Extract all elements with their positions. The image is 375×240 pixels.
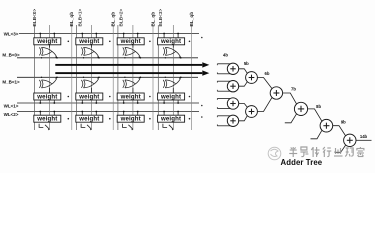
svg-text:WL<1>: WL<1>: [4, 103, 19, 108]
wire row3 col2 partial gate hook: [81, 124, 92, 131]
node array right-edge junction: [201, 37, 203, 39]
svg-text:BLB<3>: BLB<3>: [158, 9, 163, 27]
watermark glyph 2: [300, 147, 308, 157]
svg-text:6b: 6b: [265, 71, 270, 76]
node 14b width label: [360, 134, 368, 139]
wire row2 col1 tick to WL<1>: [53, 100, 55, 103]
wire row1 col3 tick to WL<3>: [137, 34, 139, 38]
node row2 col3 gate output junction: [140, 77, 142, 79]
op-amp-like adder U2 (+): [227, 81, 238, 92]
node row2 col3 M_B junction: [124, 77, 125, 78]
svg-text:weight: weight: [120, 38, 141, 45]
node bitline label BL_qb #1: [69, 12, 74, 27]
node bitline label BLB<0> #0: [32, 9, 37, 27]
wire WL<2> row line: [17, 111, 199, 113]
wire row1 col4 tick to WL<3>: [163, 34, 165, 38]
svg-text:weight: weight: [78, 116, 99, 123]
node row2 col2 gate output junction: [98, 77, 100, 79]
wire adder A2 input stub top: [217, 80, 230, 82]
weight cell row1 col1 box: [34, 38, 61, 45]
wire row2 col3 tick to WL<1>: [123, 100, 125, 103]
wire bitline BL_qb<1> vertical: [112, 25, 114, 130]
watermark logo circle: [268, 147, 281, 160]
wire bitline BL_qb<2> vertical: [152, 25, 154, 130]
weight cell row3 col1 box: [34, 115, 61, 122]
svg-text:14b: 14b: [360, 134, 368, 139]
node 9b width label: [341, 119, 346, 124]
xor gate row2 col4: [163, 77, 181, 88]
wire row3 col2 tick to WL<2>: [95, 112, 97, 116]
wire row2 col3 tick to WL<1>: [137, 100, 139, 103]
wire row3 col4 tick to WL<2>: [177, 112, 179, 116]
node row2 col4 gate output junction: [180, 77, 182, 79]
xor gate row1 col1: [39, 47, 57, 58]
svg-text:weight: weight: [78, 93, 99, 100]
wire row1 col2 weight-to-gate stub: [91, 45, 93, 48]
node 6b width label: [265, 71, 270, 76]
weight cell row1 col3 box: [117, 38, 144, 45]
node WL<3> label: [4, 31, 19, 36]
node row2 col1 M_B junction: [41, 77, 42, 78]
node array right-edge junction: [201, 105, 203, 107]
xor gate row2 col1: [39, 77, 57, 88]
wire row1 col4 tick to WL<3>: [177, 34, 179, 38]
node bitline label BL_qb #5: [150, 12, 155, 27]
weight cell row3 col2 box: [76, 115, 103, 122]
wire M_B<0> row line: [17, 57, 198, 59]
wire row2 col2 weight-to-gate stub: [91, 88, 93, 93]
xor gate row2 col2: [81, 77, 99, 88]
node inter-cell junction: [149, 41, 151, 43]
op-amp-like adder U10 (+): [344, 134, 356, 146]
node array right-edge junction: [201, 116, 203, 118]
node inter-cell junction: [149, 118, 151, 120]
weight cell row3 col4 box: [158, 115, 185, 122]
wire bitline BLB<3> vertical: [157, 25, 159, 130]
wire adder A3 input stub bottom: [217, 108, 230, 110]
wire row1 col3 tick to WL<3>: [123, 34, 125, 38]
op-amp-like adder U4 (+): [227, 115, 238, 126]
xor gate row1 col4: [163, 47, 181, 58]
wire bitline BLB<1> vertical: [76, 25, 78, 130]
node 5b width label: [244, 61, 249, 66]
svg-text:BL_qb: BL_qb: [69, 12, 74, 27]
op-amp-like adder U3 (+): [227, 98, 238, 109]
svg-text:5b: 5b: [244, 61, 249, 66]
svg-text:BLB<2>: BLB<2>: [119, 9, 124, 27]
node bitline label BLB<3> #6: [158, 9, 163, 27]
node bitline label BL_qb #7: [189, 12, 194, 27]
svg-text:weight: weight: [36, 93, 57, 100]
node inter-cell junction: [189, 41, 191, 43]
wire cell column 3 mid vertical: [132, 25, 134, 130]
node row1 col4 M_B junction: [165, 57, 166, 58]
node row2 col4 M_B junction: [165, 77, 166, 78]
watermark glyph 4: [323, 147, 332, 157]
node 8b width label: [316, 104, 321, 109]
wire row3 col1 tick to WL<2>: [53, 112, 55, 116]
wire row1 col1 weight-to-gate stub: [49, 45, 51, 48]
node inter-cell junction: [68, 118, 70, 120]
watermark glyph 6: [345, 148, 353, 157]
svg-text:weight: weight: [36, 116, 57, 123]
wire row2 col3 weight-to-gate stub: [132, 88, 134, 93]
wire row3 col3 partial gate hook: [123, 124, 134, 131]
xor gate row1 col3: [123, 47, 141, 58]
wire U7 to U8: [283, 93, 297, 104]
node row2 col2 M_B junction: [83, 77, 84, 78]
node row2 col1 gate output junction: [56, 77, 58, 79]
wire row3 col4 tick to WL<2>: [163, 112, 165, 116]
wire U9 to U10: [333, 126, 346, 136]
weight cell row2 col2 box: [76, 93, 103, 100]
svg-text:8b: 8b: [316, 104, 321, 109]
wire cell column 2 mid vertical: [91, 25, 93, 130]
op-amp-like adder U1 (+): [227, 63, 238, 74]
wire row1 col2 tick to WL<3>: [81, 34, 83, 38]
svg-text:WL<2>: WL<2>: [4, 112, 19, 117]
svg-text:9b: 9b: [341, 119, 346, 124]
svg-text:weight: weight: [78, 38, 99, 45]
svg-text:7b: 7b: [291, 87, 296, 92]
node inter-cell junction: [189, 96, 191, 98]
svg-text:4b: 4b: [223, 53, 228, 58]
wire bitline BLB<2> vertical: [117, 25, 119, 130]
op-amp-like adder U9 (+): [320, 119, 333, 132]
svg-text:WL<3>: WL<3>: [4, 31, 19, 36]
wire U3 to U6: [239, 104, 248, 108]
svg-text:weight: weight: [160, 93, 181, 100]
node 7b width label: [291, 87, 296, 92]
svg-text:M_B<0>: M_B<0>: [2, 52, 20, 57]
wire row1 col1 tick to WL<3>: [39, 34, 41, 38]
node inter-cell junction: [68, 41, 70, 43]
wire row1 col1 tick to WL<3>: [53, 34, 55, 38]
wire adder A1 input stub bottom: [217, 73, 230, 75]
wire U1 to U5: [239, 69, 248, 74]
wire U8 to U9: [308, 109, 322, 121]
svg-text:weight: weight: [160, 116, 181, 123]
wire row2 col2 tick to WL<1>: [95, 100, 97, 103]
weight cell row1 col4 box: [158, 38, 185, 45]
wire row1 col4 weight-to-gate stub: [172, 45, 174, 48]
node M_B<0> label: [2, 52, 20, 57]
wire row2 col1 weight-to-gate stub: [49, 88, 51, 93]
wire row2 col4 weight-to-gate stub: [172, 88, 174, 93]
node 4b width label: [223, 53, 228, 58]
svg-text:Adder Tree: Adder Tree: [281, 158, 323, 167]
node row1 col3 gate output junction: [140, 57, 142, 59]
wire row1 col2 tick to WL<3>: [95, 34, 97, 38]
wire U5 to U7: [257, 78, 272, 89]
svg-text:weight: weight: [120, 93, 141, 100]
svg-text:BLB<1>: BLB<1>: [78, 9, 83, 27]
wire M_B<1> row line: [17, 76, 198, 78]
wire row2 col4 tick to WL<1>: [163, 100, 165, 103]
node row1 col1 M_B junction: [41, 57, 42, 58]
svg-text:BL_qb: BL_qb: [111, 12, 116, 27]
weight cell row2 col1 box: [34, 93, 61, 100]
wire bitline BL_qb<0> vertical: [71, 25, 73, 130]
wire cell column 1 mid vertical: [49, 25, 51, 130]
wire M_B<1> accumulation bus arrow: [55, 72, 202, 74]
op-amp-like adder U8 (+): [294, 102, 307, 115]
wire M_B<0> accumulation bus arrow: [55, 64, 202, 66]
wire U8 lower partial-sum input: [285, 114, 297, 123]
wire row3 col3 tick to WL<2>: [137, 112, 139, 116]
wire U10 output: [356, 139, 372, 141]
wire WL<1> row line: [17, 102, 199, 104]
wire adder A2 input stub bottom: [217, 90, 230, 92]
wire row2 col1 tick to WL<1>: [39, 100, 41, 103]
svg-text:weight: weight: [36, 38, 57, 45]
node inter-cell junction: [68, 96, 70, 98]
wire adder A3 input stub top: [217, 98, 230, 100]
watermark glyph 5: [334, 148, 343, 156]
wire row1 col3 weight-to-gate stub: [132, 45, 134, 48]
node inter-cell junction: [189, 118, 191, 120]
svg-text:BL_qb: BL_qb: [150, 12, 155, 27]
node inter-cell junction: [109, 41, 111, 43]
wire row2 col4 tick to WL<1>: [177, 100, 179, 103]
node row1 col1 gate output junction: [56, 57, 58, 59]
wire bitline BLB<0> vertical: [34, 25, 36, 130]
wire cell column 4 mid vertical: [172, 25, 174, 130]
wire row3 col4 partial gate hook: [163, 124, 174, 131]
wire row2 col2 tick to WL<1>: [81, 100, 83, 103]
svg-text:BLB<0>: BLB<0>: [32, 9, 37, 27]
svg-text:weight: weight: [120, 116, 141, 123]
op-amp-like adder U7 (+): [270, 87, 282, 99]
wire adder A4 input stub bottom: [217, 125, 230, 127]
wire U4 to U6: [239, 116, 248, 121]
wire U2 to U5: [239, 82, 248, 87]
watermark glyph 7: [356, 147, 364, 157]
node bitline label BLB<1> #2: [78, 9, 83, 27]
node row1 col4 gate output junction: [180, 57, 182, 59]
watermark glyph 1: [289, 147, 297, 157]
xor gate row2 col3: [123, 77, 141, 88]
watermark glyph 3: [311, 147, 319, 157]
wire row3 col1 tick to WL<2>: [39, 112, 41, 116]
wire U6 to U7: [257, 97, 272, 111]
weight cell row1 col2 box: [76, 38, 103, 45]
node WL<2> label: [4, 112, 19, 117]
node WL<1> label: [4, 103, 19, 108]
wire adder A4 input stub top: [217, 115, 230, 117]
node inter-cell junction: [109, 96, 111, 98]
node inter-cell junction: [149, 96, 151, 98]
xor gate row1 col2: [81, 47, 99, 58]
wire WL<3> row line: [19, 33, 199, 35]
op-amp-like adder U5 (+): [246, 72, 258, 84]
wire row3 col1 partial gate hook: [39, 124, 50, 131]
node bitline label BLB<2> #4: [119, 9, 124, 27]
node inter-cell junction: [109, 118, 111, 120]
node M_B<1> label: [2, 80, 20, 85]
svg-text:BL_qb: BL_qb: [189, 12, 194, 27]
wire row3 col3 tick to WL<2>: [123, 112, 125, 116]
wire U10 lower partial-sum input: [335, 145, 346, 152]
svg-text:weight: weight: [160, 38, 181, 45]
wire bitline BL_qb<3> vertical: [191, 25, 193, 130]
wire U9 lower partial-sum input: [311, 130, 322, 139]
node bitline label BL_qb #3: [111, 12, 116, 27]
node row1 col3 M_B junction: [124, 57, 125, 58]
weight cell row2 col3 box: [117, 93, 144, 100]
wire row3 col2 tick to WL<2>: [81, 112, 83, 116]
weight cell row3 col3 box: [117, 115, 144, 122]
op-amp-like adder U6 (+): [246, 106, 258, 118]
node row1 col2 M_B junction: [83, 57, 84, 58]
weight cell row2 col4 box: [158, 93, 185, 100]
wire adder A1 input stub top: [217, 63, 230, 65]
node row1 col2 gate output junction: [98, 57, 100, 59]
svg-text:M_B<1>: M_B<1>: [2, 80, 20, 85]
